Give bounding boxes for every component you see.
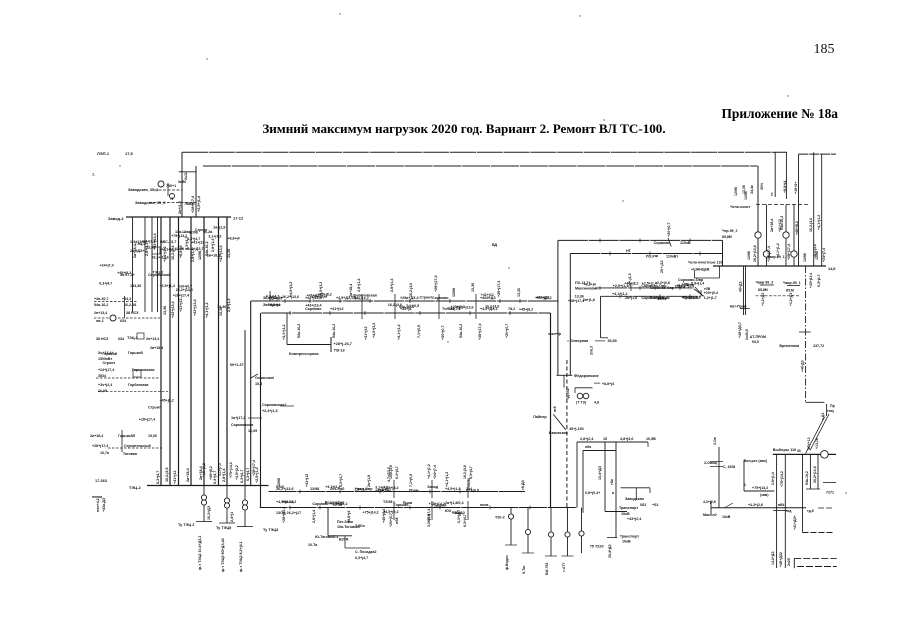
svg-text:Ту ТЭЦ3: Ту ТЭЦ3 [263,528,278,532]
svg-text:0,8+j0,4+: 0,8+j0,4+ [585,491,600,495]
svg-text:Строит: Строит [419,296,432,300]
svg-text:2п+13,4: 2п+13,4 [94,311,107,315]
svg-text:26,2+j13,6: 26,2+j13,6 [176,288,193,292]
svg-text:Строит: Строит [102,361,115,365]
svg-text:30,4+ДЗ: 30,4+ДЗ [608,544,612,558]
svg-text:ВВС-13,7: ВВС-13,7 [160,240,176,244]
svg-text:Максимовка: Максимовка [575,287,598,291]
svg-text:ТЭЦ-2: ТЭЦ-2 [129,485,142,490]
svg-text:2и+18,4: 2и+18,4 [207,253,220,257]
svg-text:закл+ф: закл+ф [548,332,561,336]
svg-text:6,3+j4,7: 6,3+j4,7 [817,275,821,287]
svg-text:(зам): (зам) [760,493,769,497]
svg-text:16,2-j3,6: 16,2-j3,6 [813,244,817,258]
svg-text:ТД-152: ТД-152 [566,388,570,400]
svg-text:+24+j17,4: +24+j17,4 [98,368,114,372]
svg-text:+8,8+j4: +8,8+j4 [602,382,614,386]
svg-text:-1: -1 [170,197,173,201]
svg-text:9-Тяг: 9-Тяг [522,565,526,574]
svg-text:4б+ДЗ: 4б+ДЗ [739,281,743,292]
svg-text:14,2+ДЗ: 14,2+ДЗ [771,551,775,565]
svg-text:теку: теку [827,409,834,413]
svg-text:16,2-j3,6: 16,2-j3,6 [809,218,813,232]
svg-text:26,2+j13,6: 26,2+j13,6 [282,295,299,299]
svg-text:2ч-5ДЗ+: 2ч-5ДЗ+ [130,249,145,253]
svg-text:3,1+j7,3: 3,1+j7,3 [218,463,222,476]
svg-text:+28+j17,4: +28+j17,4 [767,246,771,262]
svg-text:2,8+j1,4: 2,8+j1,4 [354,488,367,492]
svg-text:2,8+j1,4: 2,8+j1,4 [691,282,704,286]
svg-text:+4ч2+ДЗ,7: +4ч2+ДЗ,7 [185,247,204,251]
svg-text:+24+j7,4: +24+j7,4 [427,509,431,523]
svg-text:ТЭЦ-2: ТЭЦ-2 [153,271,164,275]
svg-text:+43+j13,4: +43+j13,4 [305,304,321,308]
svg-text:+13,18: +13,18 [815,438,819,449]
svg-text:+3п-30,7: +3п-30,7 [94,297,108,301]
svg-text:+75+j14,2: +75+j14,2 [362,511,378,515]
svg-text:+41+j12: +41+j12 [330,307,344,311]
svg-text:Чаир-99_2: Чаир-99_2 [756,281,774,285]
svg-text:10кВ: 10кВ [621,512,630,516]
svg-text:+28+j17,4: +28+j17,4 [478,322,482,340]
svg-text:6,3+j4,7: 6,3+j4,7 [469,466,473,479]
svg-text:АТ-ПРОМ: АТ-ПРОМ [750,335,766,339]
svg-text:Строит: Строит [195,228,208,232]
svg-text:+3ч+j2,4: +3ч+j2,4 [98,383,112,387]
svg-text:+4,1+j1,2: +4,1+j1,2 [776,243,780,258]
svg-text:ф-т ТЭЦ3 8,2+j4,1: ф-т ТЭЦ3 8,2+j4,1 [239,541,243,572]
svg-text:10,5В: 10,5В [646,437,656,441]
svg-text:13ОВ 26,2+j17: 13ОВ 26,2+j17 [276,511,301,515]
svg-text:+75+j14,2: +75+j14,2 [752,486,768,490]
svg-text:85,8М: 85,8М [722,235,732,239]
svg-text:+41+j12: +41+j12 [173,470,177,484]
svg-text:12/98: 12/98 [198,251,202,260]
svg-text:12/98: 12/98 [277,478,281,487]
svg-text:54а-16,2: 54а-16,2 [282,500,296,504]
svg-text:78,2: 78,2 [508,307,515,311]
svg-text:16,2-j3,6: 16,2-j3,6 [463,465,467,479]
svg-text:Тяговая: Тяговая [123,452,137,456]
svg-text:+75+j14,2: +75+j14,2 [229,462,233,478]
svg-text:Пром: Пром [409,489,419,493]
svg-text:12/98: 12/98 [744,191,748,200]
svg-text:7,1+j0,5: 7,1+j0,5 [417,325,421,338]
svg-text:2и+18,4: 2и+18,4 [186,467,190,482]
svg-text:85,8М: 85,8М [758,288,768,292]
svg-text:Сормовская2: Сормовская2 [262,403,286,407]
svg-text:лв-1: лв-1 [96,319,104,323]
svg-text:+28+j17,4: +28+j17,4 [139,417,155,421]
svg-text:Масел2: Масел2 [703,513,717,517]
svg-text:+24+j7,4: +24+j7,4 [822,248,826,262]
svg-text:1а+j17,2: 1а+j17,2 [231,416,245,420]
svg-text:13,36: 13,36 [227,249,231,258]
svg-text:30%: 30% [760,182,764,190]
svg-text:6,3+j4,7: 6,3+j4,7 [355,556,368,560]
svg-text:Выборы 110: Выборы 110 [773,448,796,452]
svg-text:+8,8+j4: +8,8+j4 [783,181,787,193]
svg-text:НТ: НТ [626,249,632,253]
svg-text:+28+j17,4: +28+j17,4 [434,274,438,292]
svg-text:+ШАНЦЕВ: +ШАНЦЕВ [691,268,710,272]
svg-text:2,8+j1,4: 2,8+j1,4 [227,298,231,312]
svg-text:+4,1+j1,2: +4,1+j1,2 [445,472,449,487]
svg-text:634: 634 [120,319,126,323]
svg-text:2а+j1,8: 2а+j1,8 [367,475,371,487]
svg-text:3-Ов: 3-Ов [713,437,717,445]
svg-text:+28+j17,4: +28+j17,4 [568,299,584,303]
svg-text:+41+ДЗ+: +41+ДЗ+ [793,515,797,530]
svg-text:85,М: 85,М [786,289,794,293]
svg-text:+2,2+j0,6: +2,2+j0,6 [655,281,670,285]
svg-text:10,4: 10,4 [255,382,263,386]
svg-text:2,8+j2,4: 2,8+j2,4 [580,437,594,441]
svg-text:16,2-j3,6: 16,2-j3,6 [485,305,499,309]
svg-text:+45+j8,2: +45+j8,2 [117,271,131,275]
svg-text:6,3+j4,7: 6,3+j4,7 [240,470,244,483]
svg-text:мтп+4,2: мтп+4,2 [96,498,100,512]
svg-text:+43+j13,4: +43+j13,4 [681,296,697,300]
svg-text:26,2+j13,6: 26,2+j13,6 [813,466,817,483]
svg-text:лб8: лб8 [395,518,399,524]
svg-text:4,8: 4,8 [594,401,599,405]
svg-text:634: 634 [118,337,124,341]
svg-text:+4,1+j1,2: +4,1+j1,2 [427,464,431,479]
svg-text:185: 185 [814,42,835,57]
svg-text:2а+j1,8: 2а+j1,8 [583,298,595,302]
svg-text:93,5: 93,5 [752,340,759,344]
svg-text:Т2/98: Т2/98 [383,500,392,504]
svg-text:4,7+ДЗ,6: 4,7+ДЗ,6 [387,467,391,482]
svg-text:+4б+ДЗ,7: +4б+ДЗ,7 [738,322,742,338]
svg-text:2х6,3: 2х6,3 [590,346,594,355]
svg-text:12/98: 12/98 [175,247,184,251]
svg-text:Временная: Временная [779,344,799,348]
svg-text:+43+j13,4: +43+j13,4 [809,273,813,288]
svg-text:Заводская_35_1: Заводская_35_1 [128,188,158,192]
svg-text:3-Овощ: 3-Овощ [704,461,717,465]
svg-text:ф-т ТЭЦ2 10,4+ДЗ,2: ф-т ТЭЦ2 10,4+ДЗ,2 [198,536,202,570]
svg-text:вВ4: вВ4 [778,503,785,507]
svg-text:2,8+j1,4: 2,8+j1,4 [222,468,226,482]
svg-text:2,8+j1,4: 2,8+j1,4 [771,472,775,485]
svg-text:+75+j14,2: +75+j14,2 [171,234,187,238]
svg-text:ВД: ВД [492,243,498,247]
svg-text:+8,8+j4: +8,8+j4 [347,511,351,523]
svg-text:Транспорт: Транспорт [620,535,639,539]
svg-text:+45+j8,2: +45+j8,2 [318,293,332,297]
svg-text:54а-16,2: 54а-16,2 [297,324,301,338]
svg-text:12/98: 12/98 [747,251,751,260]
svg-text:Ту ТЭЦ5: Ту ТЭЦ5 [216,526,231,530]
svg-text:Чело-очист: Чело-очист [730,205,751,209]
svg-text:6,3+j4,7: 6,3+j4,7 [99,281,112,285]
svg-text:Фёдоровские: Фёдоровские [574,374,599,378]
svg-text:ГорькийЛ: ГорькийЛ [118,434,136,438]
svg-text:2и+18,4: 2и+18,4 [150,346,163,350]
svg-text:2а+j1,8: 2а+j1,8 [213,225,225,229]
svg-text:12/98: 12/98 [452,288,456,297]
svg-text:+4б+ДЗ2: +4б+ДЗ2 [779,552,783,567]
svg-text:+75+j14,2: +75+j14,2 [429,502,445,506]
svg-text:6,3+j4,7: 6,3+j4,7 [463,514,467,527]
svg-text:7,1+j0,5: 7,1+j0,5 [409,474,413,487]
svg-text:Чер-99_2: Чер-99_2 [722,229,738,233]
svg-text:ЛЭП-1: ЛЭП-1 [97,151,110,156]
svg-text:ПЗ-13: ПЗ-13 [334,349,345,353]
svg-text:16,09: 16,09 [248,429,257,433]
svg-text:+20+j0,7: +20+j0,7 [505,324,509,338]
svg-text:ЗРУ+13: ЗРУ+13 [807,437,811,450]
svg-text:Сормово: Сормово [654,241,671,245]
svg-text:тд,б: тд,б [807,509,814,513]
svg-text:12/98: 12/98 [803,253,807,262]
svg-text:+8,8+j4: +8,8+j4 [227,237,239,241]
svg-text:20+-j12: 20+-j12 [660,260,664,273]
svg-text:+28+j-26,7: +28+j-26,7 [334,342,352,346]
svg-text:12/98: 12/98 [310,487,319,491]
svg-text:+20+j0,7: +20+j0,7 [667,222,671,237]
svg-text:ТЭЦ-2: ТЭЦ-2 [135,242,146,246]
svg-text:Сормово: Сормово [432,296,449,300]
svg-text:+45+j8,2: +45+j8,2 [160,399,174,403]
svg-text:Сормовская: Сормовская [231,423,253,427]
svg-text:+45+j8,2: +45+j8,2 [382,509,386,523]
svg-text:тс: тс [770,192,774,196]
svg-text:2и+18,4: 2и+18,4 [90,434,103,438]
svg-text:14,8: 14,8 [828,267,835,271]
svg-text:6,3+j4,7: 6,3+j4,7 [156,471,160,484]
svg-text:13,36: 13,36 [163,306,167,315]
svg-text:33,65: 33,65 [608,339,617,343]
svg-text:1,2+j1,7: 1,2+j1,7 [704,296,717,300]
svg-text:+4,1+j1,2: +4,1+j1,2 [397,324,401,340]
svg-text:110кВ: 110кВ [680,241,691,245]
svg-text:ПО,РФ: ПО,РФ [646,255,659,259]
svg-text:12/98: 12/98 [658,297,667,301]
svg-text:16,3+ДЗ: 16,3+ДЗ [207,505,211,520]
svg-text:+4,5+j3,2: +4,5+j3,2 [202,463,206,478]
svg-text:+28+j17,4: +28+j17,4 [787,244,791,260]
svg-text:+4,3+j2,6: +4,3+j2,6 [748,503,763,507]
svg-text:+41+j12: +41+j12 [536,296,549,300]
svg-text:17,5: 17,5 [125,151,134,156]
svg-text:+20+j0,7: +20+j0,7 [389,513,393,527]
svg-text:4,3+j2,6: 4,3+j2,6 [703,500,716,504]
svg-text:7.: 7. [92,172,95,177]
svg-text:6,3+j4,7: 6,3+j4,7 [246,468,250,481]
svg-text:Заводская: Заводская [625,497,644,501]
svg-text:2,4+j1: 2,4+j1 [230,512,234,522]
svg-text:Охранная!: Охранная! [255,376,274,380]
svg-text:пба: пба [585,445,591,449]
svg-text:Строит: Строит [148,405,161,409]
svg-text:Ю-Тяговый 4: Ю-Тяговый 4 [315,535,338,539]
svg-text:+19+2+: +19+2+ [794,182,798,194]
svg-text:+43+j13,4: +43+j13,4 [193,298,197,316]
svg-text:2,8+j1,4: 2,8+j1,4 [357,278,361,292]
svg-text:+2,5+j1,4: +2,5+j1,4 [642,281,657,285]
svg-text:тбВ: тбВ [704,287,711,291]
svg-text:+28+j17,4: +28+j17,4 [191,195,195,213]
svg-text:7,1+j0,5: 7,1+j0,5 [406,304,419,308]
svg-text:+4,1+j1,2: +4,1+j1,2 [817,215,821,230]
svg-text:+4,5+j3,2: +4,5+j3,2 [235,465,239,480]
svg-text:2,8+j1,4: 2,8+j1,4 [312,510,316,523]
svg-text:75 Т220: 75 Т220 [590,545,604,549]
svg-text:26,2+j13,6: 26,2+j13,6 [753,245,757,262]
svg-text:+41+j12: +41+j12 [191,240,204,244]
svg-text:Ту ТЭЦ 2: Ту ТЭЦ 2 [178,523,194,527]
svg-text:+41+j12: +41+j12 [305,474,309,487]
svg-text:+41+j12: +41+j12 [481,293,494,297]
svg-text:3,1+j7,3: 3,1+j7,3 [208,235,221,239]
svg-text:+2,5+j1,4: +2,5+j1,4 [197,195,201,212]
svg-text:Лайнер: Лайнер [533,415,547,419]
svg-text:54а-16,2: 54а-16,2 [805,471,809,485]
svg-text:+45+j8,2: +45+j8,2 [624,282,638,286]
svg-text:6,3+j4,7: 6,3+j4,7 [395,466,399,479]
svg-text:+28+j17,4: +28+j17,4 [173,294,189,298]
svg-text:т8-ДЗ: т8-ДЗ [521,479,525,490]
svg-text:16,2-j3,6: 16,2-j3,6 [409,283,413,297]
svg-text:45+j-152: 45+j-152 [569,427,584,431]
svg-text:Строительный: Строительный [124,444,151,448]
svg-text:Заводская_35_2: Заводская_35_2 [135,201,165,205]
svg-text:+43+j2,4: +43+j2,4 [627,517,641,521]
svg-text:+45+j8,2: +45+j8,2 [519,307,533,311]
svg-text:54а-16,2: 54а-16,2 [355,296,369,300]
svg-text:+28+j17,4: +28+j17,4 [252,460,256,476]
svg-text:7271: 7271 [826,491,834,495]
svg-text:+4,1+j1,2: +4,1+j1,2 [205,302,209,318]
svg-text:60+1-37: 60+1-37 [230,363,244,367]
svg-text:6,3+j4,7: 6,3+j4,7 [457,510,461,523]
svg-text:+8,8+j4: +8,8+j4 [584,283,596,287]
svg-text:10кВ: 10кВ [722,515,731,519]
svg-text:16,2-j3,6: 16,2-j3,6 [388,303,402,307]
svg-text:+28+j17,4: +28+j17,4 [497,281,501,297]
svg-text:0б2: 0б2 [640,503,646,507]
svg-text:+13,3: +13,3 [122,297,131,301]
svg-text:С, 1528: С, 1528 [723,465,735,469]
svg-text:16,09: 16,09 [98,389,107,393]
svg-text:+20+j0,4: +20+j0,4 [704,291,718,295]
svg-text:лепка: лепка [92,495,103,499]
svg-text:16,2-j3,6: 16,2-j3,6 [165,467,169,482]
svg-text:+2,4+j1,3: +2,4+j1,3 [262,409,278,413]
svg-text:2х40,5: 2х40,5 [745,329,749,340]
svg-text:Горький: Горький [102,352,117,356]
svg-text:+75+j14,2: +75+j14,2 [780,471,784,487]
svg-text:54а-16,2: 54а-16,2 [459,324,463,338]
svg-text:+4,1+j1,2: +4,1+j1,2 [282,324,286,340]
svg-text:+б2: +б2 [652,503,658,507]
svg-text:Компрессорная: Компрессорная [289,352,319,356]
svg-text:мгла: мгла [480,503,489,507]
svg-text:т-АТ7: т-АТ7 [562,563,566,572]
svg-text:38 НСЗ: 38 НСЗ [96,337,109,341]
svg-text:+24+j7,4: +24+j7,4 [99,264,113,268]
svg-text:110кВт: 110кВт [666,255,678,259]
svg-text:ф-т ТЭЦ5 9б+ДЗ,44: ф-т ТЭЦ5 9б+ДЗ,44 [221,538,225,572]
svg-text:2и+18,4: 2и+18,4 [349,284,353,297]
svg-text:237,72: 237,72 [813,344,824,348]
svg-text:2,8+j1,4: 2,8+j1,4 [211,238,215,252]
svg-text:2а+j1,8: 2а+j1,8 [178,201,182,214]
svg-text:Чаир-99_1: Чаир-99_1 [783,281,801,285]
svg-text:2х11: 2х11 [184,172,188,180]
svg-text:13,4+ДЗ: 13,4+ДЗ [598,465,602,480]
svg-text:+41+j12: +41+j12 [778,219,782,232]
svg-text:ф.Водоз: ф.Водоз [505,555,509,570]
svg-text:(Т ТЗ): (Т ТЗ) [576,401,587,405]
svg-text:13,36: 13,36 [217,305,226,309]
svg-text:10кВ: 10кВ [622,540,631,544]
svg-text:17-363: 17-363 [95,479,107,483]
svg-text:+24+j7,4: +24+j7,4 [433,465,437,479]
svg-text:Завод-2: Завод-2 [108,216,124,221]
svg-text:16,2-18: 16,2-18 [124,303,136,307]
svg-text:30: 30 [797,449,801,453]
svg-text:5,6Dх: 5,6Dх [355,524,365,528]
svg-text:12/98: 12/98 [734,187,738,196]
svg-text:+4,5+j3,2: +4,5+j3,2 [372,323,376,338]
svg-text:Зимний максимум нагрузок 2020: Зимний максимум нагрузок 2020 год. Вариа… [262,121,665,136]
svg-text:ТЭЦ-2: ТЭЦ-2 [127,336,138,340]
svg-text:19,06: 19,06 [148,434,157,438]
svg-text:12/98: 12/98 [333,503,342,507]
svg-text:2а+j1,8/0,4: 2а+j1,8/0,4 [445,501,465,505]
svg-text:13,36: 13,36 [467,478,471,487]
svg-text:+8,8+j4: +8,8+j4 [268,303,280,307]
svg-text:1: 1 [744,483,746,487]
svg-text:2х25: 2х25 [787,558,791,566]
svg-text:2п+13,4: 2п+13,4 [146,337,159,341]
svg-text:6,3+j4,7: 6,3+j4,7 [266,295,279,299]
svg-text:Баковская: Баковская [549,431,568,435]
svg-text:26,2+j13,6: 26,2+j13,6 [152,255,169,259]
svg-text:+20+j0,7: +20+j0,7 [441,325,445,340]
svg-text:Чело-очистные 110: Чело-очистные 110 [688,261,722,265]
svg-text:750+1: 750+1 [166,184,176,188]
svg-text:+41+j12: +41+j12 [364,326,368,340]
svg-text:Транспорт: Транспорт [619,506,638,510]
svg-text:а: а [612,491,615,495]
svg-text:6,3+j4,7: 6,3+j4,7 [213,471,217,484]
svg-text:133,36: 133,36 [130,284,141,288]
svg-text:тбк: тбк [610,479,614,485]
svg-text:13,36: 13,36 [471,283,475,292]
svg-text:Пром: Пром [403,501,413,505]
svg-text:+4,1+j1,2: +4,1+j1,2 [325,485,340,489]
svg-text:Овр-2: Овр-2 [675,284,685,288]
svg-text:Авт-Пром: Авт-Пром [730,305,747,309]
svg-text:+45+j8,2: +45+j8,2 [209,466,213,480]
svg-text:+28+j17,4: +28+j17,4 [92,444,108,448]
svg-text:17-12: 17-12 [233,216,244,221]
svg-text:БМ-752: БМ-752 [545,563,549,575]
svg-text:16,7а: 16,7а [100,451,110,455]
svg-text:54а-16,2: 54а-16,2 [332,324,336,338]
svg-text:т-ДЗ: т-ДЗ [821,413,825,420]
svg-text:38 НСЗ: 38 НСЗ [126,311,139,315]
svg-text:54а-16,2: 54а-16,2 [94,303,108,307]
svg-text:+28+j17,4: +28+j17,4 [282,507,286,523]
svg-text:Вкл.рез (зам): Вкл.рез (зам) [744,459,767,463]
svg-text:13,36: 13,36 [517,288,521,297]
